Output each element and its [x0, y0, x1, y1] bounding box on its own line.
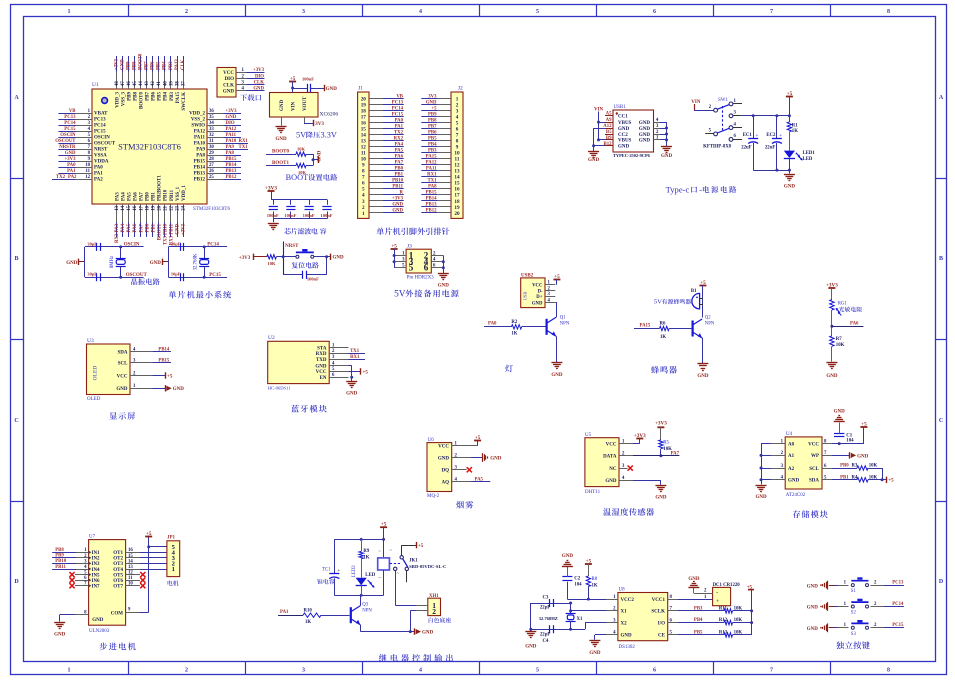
svg-text:10pF: 10pF — [171, 272, 181, 277]
svg-text:+3V3: +3V3 — [265, 185, 277, 191]
svg-text:+5: +5 — [861, 421, 867, 427]
svg-text:PC13: PC13 — [892, 581, 904, 586]
svg-text:EC1: EC1 — [743, 133, 753, 138]
svg-text:S3: S3 — [851, 632, 857, 637]
svg-text:GND: GND — [223, 90, 235, 95]
svg-text:HC-06DS11: HC-06DS11 — [268, 385, 292, 390]
svg-text:100nF: 100nF — [321, 213, 333, 218]
svg-text:44: 44 — [139, 81, 144, 86]
svg-text:1: 1 — [172, 566, 175, 573]
svg-text:RX2: RX2 — [394, 137, 404, 142]
svg-text:IN3: IN3 — [92, 562, 101, 567]
svg-text:OT3: OT3 — [113, 562, 123, 567]
svg-text:PB14: PB14 — [158, 347, 170, 352]
svg-text:PB7: PB7 — [145, 61, 150, 70]
svg-text:VBUS: VBUS — [618, 139, 632, 144]
svg-text:PA15: PA15 — [426, 155, 437, 160]
svg-text:U8: U8 — [619, 588, 626, 593]
svg-text:PB15: PB15 — [226, 157, 238, 162]
svg-text:GND: GND — [253, 87, 264, 92]
svg-text:U4: U4 — [786, 432, 793, 437]
svg-text:GND: GND — [661, 154, 673, 159]
svg-text:LED: LED — [803, 157, 813, 162]
svg-text:GND: GND — [426, 100, 437, 105]
svg-text:11: 11 — [361, 151, 366, 157]
svg-text:43: 43 — [145, 81, 150, 86]
svg-text:CLK: CLK — [181, 59, 186, 70]
svg-text:PB4: PB4 — [694, 618, 703, 623]
svg-text:GND: GND — [438, 456, 450, 461]
svg-text:NRSTR: NRSTR — [59, 145, 76, 150]
svg-text:I/O: I/O — [658, 621, 665, 626]
svg-text:PA6: PA6 — [395, 155, 404, 160]
svg-text:PB2BOOT1: PB2BOOT1 — [158, 175, 163, 201]
svg-text:24: 24 — [182, 205, 187, 210]
svg-text:VIN: VIN — [292, 101, 297, 111]
svg-text:J1: J1 — [358, 86, 363, 92]
svg-text:PA0: PA0 — [67, 163, 76, 168]
svg-text:PC14: PC14 — [892, 602, 904, 607]
svg-text:4: 4 — [362, 193, 365, 199]
svg-text:32.768K: 32.768K — [194, 253, 199, 270]
svg-text:U6: U6 — [428, 438, 435, 443]
svg-text:X1: X1 — [621, 610, 628, 615]
svg-text:+5: +5 — [586, 558, 592, 564]
svg-text:PB5: PB5 — [694, 631, 703, 636]
svg-text:NC: NC — [609, 467, 617, 472]
svg-text:USB: USB — [523, 292, 528, 301]
svg-text:3: 3 — [302, 668, 305, 674]
svg-text:CC1: CC1 — [618, 114, 628, 119]
svg-text:8MHz: 8MHz — [110, 256, 115, 268]
svg-text:B1: B1 — [691, 289, 697, 294]
svg-text:+5: +5 — [363, 370, 369, 375]
svg-text:D: D — [939, 579, 944, 585]
svg-text:B12: B12 — [604, 142, 613, 147]
svg-text:22: 22 — [170, 205, 175, 210]
svg-text:29: 29 — [209, 151, 214, 156]
svg-text:XH1: XH1 — [429, 594, 439, 599]
svg-text:LED2: LED2 — [352, 565, 357, 577]
svg-text:22uF: 22uF — [765, 146, 775, 151]
svg-text:OLED: OLED — [87, 397, 101, 402]
svg-text:XC6206: XC6206 — [320, 112, 339, 118]
svg-text:VB: VB — [69, 109, 76, 114]
svg-text:PA7: PA7 — [139, 223, 144, 232]
svg-text:VSS_1: VSS_1 — [176, 186, 181, 201]
svg-text:GND: GND — [315, 364, 327, 369]
svg-text:EN: EN — [320, 376, 327, 381]
svg-text:13: 13 — [115, 205, 120, 210]
svg-text:PA1: PA1 — [94, 172, 103, 177]
svg-text:8: 8 — [887, 9, 890, 15]
svg-text:R2: R2 — [511, 320, 517, 325]
svg-text:Q2: Q2 — [705, 316, 711, 321]
svg-text:ULN2003: ULN2003 — [89, 629, 110, 634]
svg-text:PC15: PC15 — [209, 273, 221, 278]
svg-text:PB12: PB12 — [194, 178, 206, 183]
svg-text:JP1: JP1 — [167, 535, 176, 540]
svg-text:PA11: PA11 — [226, 133, 237, 138]
svg-text:NRST: NRST — [94, 148, 108, 153]
svg-text:PB11: PB11 — [170, 189, 175, 201]
svg-text:+5: +5 — [290, 76, 296, 82]
svg-text:SDA: SDA — [117, 350, 127, 355]
svg-text:+5: +5 — [787, 91, 793, 97]
svg-text:Q3: Q3 — [362, 602, 368, 607]
svg-text:PB14: PB14 — [226, 163, 238, 168]
svg-text:B: B — [14, 256, 18, 262]
svg-text:GND: GND — [655, 496, 667, 501]
svg-text:PA0: PA0 — [395, 119, 404, 124]
svg-text:GND: GND — [621, 634, 633, 639]
svg-text:C2: C2 — [574, 577, 580, 582]
svg-text:17: 17 — [454, 193, 460, 199]
svg-text:AT24C02: AT24C02 — [786, 493, 806, 498]
svg-text:PB12: PB12 — [226, 175, 238, 180]
svg-text:+5: +5 — [431, 106, 437, 111]
svg-text:A0: A0 — [788, 442, 795, 447]
svg-text:3: 3 — [302, 9, 305, 15]
svg-text:PA12: PA12 — [426, 161, 437, 166]
svg-text:A2: A2 — [788, 467, 795, 472]
svg-text:31: 31 — [209, 139, 214, 144]
svg-text:4: 4 — [456, 115, 459, 121]
svg-text:PB6: PB6 — [151, 61, 156, 70]
svg-text:30pF: 30pF — [87, 241, 97, 246]
svg-text:U3: U3 — [87, 338, 94, 344]
svg-text:PA1: PA1 — [280, 610, 289, 615]
svg-text:GND: GND — [639, 133, 651, 138]
svg-text:R8: R8 — [592, 577, 598, 582]
svg-text:R10: R10 — [304, 608, 313, 613]
svg-text:R6: R6 — [660, 322, 666, 327]
svg-text:40: 40 — [163, 81, 168, 86]
svg-text:PB10: PB10 — [55, 559, 67, 564]
svg-text:15: 15 — [127, 205, 132, 210]
svg-text:+5: +5 — [888, 479, 894, 484]
svg-text:GND: GND — [226, 115, 237, 120]
svg-text:VCC: VCC — [223, 71, 234, 76]
svg-text:PB3: PB3 — [170, 92, 175, 101]
svg-text:PA9: PA9 — [196, 148, 205, 153]
svg-text:33: 33 — [209, 127, 214, 132]
svg-text:GND: GND — [618, 145, 630, 150]
svg-text:8: 8 — [887, 668, 890, 674]
svg-text:B9: B9 — [606, 136, 612, 141]
svg-text:6: 6 — [653, 668, 656, 674]
svg-text:PB1: PB1 — [840, 475, 849, 480]
svg-text:PA9: PA9 — [226, 145, 235, 150]
svg-text:PA8: PA8 — [196, 154, 205, 159]
svg-text:PB5: PB5 — [158, 92, 163, 101]
svg-text:OSCIN: OSCIN — [94, 136, 110, 141]
svg-text:PA2: PA2 — [94, 178, 103, 183]
svg-text:PA5: PA5 — [127, 192, 132, 201]
svg-text:20: 20 — [157, 205, 162, 210]
svg-text:41: 41 — [157, 81, 162, 86]
svg-text:1: 1 — [68, 9, 71, 15]
svg-text:S2: S2 — [851, 611, 857, 616]
svg-text:A: A — [939, 95, 944, 101]
svg-text:12: 12 — [85, 175, 90, 180]
svg-text:B: B — [939, 256, 943, 262]
svg-text:VDD_3: VDD_3 — [115, 92, 120, 108]
svg-text:GND: GND — [333, 256, 345, 261]
svg-text:GND: GND — [92, 618, 104, 623]
svg-text:PB4: PB4 — [164, 92, 169, 101]
svg-text:BOOT0: BOOT0 — [140, 92, 145, 109]
svg-text:+3V3: +3V3 — [826, 282, 838, 288]
svg-text:PB10: PB10 — [164, 189, 169, 201]
svg-text:RX1: RX1 — [427, 173, 437, 178]
svg-text:PB3: PB3 — [428, 149, 437, 154]
svg-text:GND: GND — [755, 495, 767, 500]
svg-text:SRD-05VDC-SL-C: SRD-05VDC-SL-C — [409, 564, 446, 569]
svg-text:+5: +5 — [418, 544, 424, 549]
svg-text:VCC: VCC — [117, 374, 128, 379]
svg-text:VBUS: VBUS — [618, 121, 632, 126]
svg-text:45: 45 — [133, 81, 138, 86]
svg-text:TX2: TX2 — [394, 131, 404, 136]
svg-text:30: 30 — [209, 145, 214, 150]
svg-text:3.3V: 3.3V — [321, 131, 337, 140]
svg-text:DQ: DQ — [442, 469, 450, 474]
svg-text:OLED: OLED — [93, 366, 99, 381]
svg-text:NPN: NPN — [560, 322, 570, 327]
svg-text:10K: 10K — [297, 147, 306, 152]
svg-text:47: 47 — [121, 81, 126, 86]
svg-text:VCC2: VCC2 — [621, 598, 635, 603]
svg-text:VDDA: VDDA — [94, 160, 109, 165]
svg-text:TXD: TXD — [316, 358, 327, 363]
svg-text:2: 2 — [185, 9, 188, 15]
svg-text:RXD: RXD — [316, 352, 327, 357]
svg-text:PB1: PB1 — [394, 173, 403, 178]
svg-text:IN7: IN7 — [92, 585, 101, 590]
svg-text:GND: GND — [788, 479, 800, 484]
svg-text:NPN: NPN — [362, 609, 372, 614]
svg-text:PC14: PC14 — [392, 106, 404, 111]
svg-text:19: 19 — [151, 205, 156, 210]
svg-text:PA12: PA12 — [226, 127, 237, 132]
svg-text:PB15: PB15 — [194, 160, 206, 165]
svg-text:SWCLK: SWCLK — [182, 92, 187, 111]
svg-text:NRST: NRST — [285, 244, 299, 249]
svg-text:GND: GND — [588, 158, 600, 163]
svg-text:D+: D+ — [536, 295, 542, 300]
svg-text:GND: GND — [54, 632, 66, 637]
svg-text:SCL: SCL — [118, 361, 128, 366]
svg-text:C3: C3 — [543, 595, 549, 600]
svg-text:TX1: TX1 — [427, 179, 437, 184]
svg-text:GND: GND — [834, 410, 846, 415]
svg-text:BOOT: BOOT — [286, 173, 309, 182]
svg-text:PA11: PA11 — [194, 136, 206, 141]
svg-text:22uF: 22uF — [741, 146, 751, 151]
svg-text:A1: A1 — [788, 454, 795, 459]
svg-text:PA8: PA8 — [226, 151, 235, 156]
svg-text:VSSA: VSSA — [94, 154, 107, 159]
svg-text:OSCOUT: OSCOUT — [94, 142, 116, 147]
svg-text:SW1: SW1 — [718, 98, 729, 103]
svg-text:DIO: DIO — [225, 77, 235, 82]
svg-text:GND: GND — [826, 374, 838, 379]
svg-text:+: + — [337, 568, 340, 574]
svg-text:PB1: PB1 — [151, 223, 156, 232]
svg-text:LED1: LED1 — [803, 151, 816, 156]
svg-text:~: ~ — [390, 549, 393, 554]
svg-text:10K: 10K — [268, 261, 277, 266]
svg-text:3V3: 3V3 — [315, 122, 324, 127]
svg-text:PB11: PB11 — [392, 185, 403, 190]
svg-text:26: 26 — [209, 169, 214, 174]
svg-text:PC14: PC14 — [94, 124, 106, 129]
svg-text:CC2: CC2 — [618, 133, 628, 138]
svg-text:PA11: PA11 — [426, 167, 437, 172]
svg-text:JK1: JK1 — [409, 559, 418, 564]
svg-text:RG1: RG1 — [838, 302, 848, 307]
svg-text:BOOT0: BOOT0 — [272, 150, 289, 155]
svg-text:PB10: PB10 — [392, 179, 404, 184]
svg-text:PB8: PB8 — [134, 92, 139, 101]
svg-text:PB1: PB1 — [152, 192, 157, 201]
svg-text:IN4: IN4 — [92, 568, 101, 573]
svg-text:OSCOUT: OSCOUT — [126, 273, 148, 278]
svg-text:21: 21 — [164, 205, 169, 210]
svg-text:SCLK: SCLK — [651, 610, 665, 615]
svg-text:STM32F103C8T6: STM32F103C8T6 — [118, 142, 181, 152]
svg-text:PC13: PC13 — [64, 115, 76, 120]
svg-text:Q1: Q1 — [560, 316, 566, 321]
svg-text:PB5: PB5 — [157, 61, 162, 70]
svg-text:GND: GND — [639, 121, 651, 126]
svg-text:VSS_2: VSS_2 — [191, 118, 206, 123]
svg-text:VDD_2: VDD_2 — [189, 112, 205, 117]
svg-text:PA10: PA10 — [226, 139, 237, 144]
svg-text:36: 36 — [209, 109, 214, 114]
svg-text:5V: 5V — [654, 299, 662, 306]
svg-text:1: 1 — [68, 668, 71, 674]
svg-text:GND: GND — [176, 223, 181, 234]
svg-text:R5: R5 — [663, 441, 669, 446]
svg-text:PC15: PC15 — [392, 112, 404, 117]
svg-text:PA5: PA5 — [475, 477, 484, 482]
svg-text:BOOT1: BOOT1 — [157, 223, 162, 240]
svg-text:PA1: PA1 — [67, 169, 76, 174]
svg-text:PB0: PB0 — [394, 167, 403, 172]
svg-text:-: - — [716, 590, 718, 597]
svg-text:PA0: PA0 — [488, 322, 497, 327]
svg-text:39: 39 — [169, 81, 174, 86]
svg-text:3V3: 3V3 — [428, 94, 437, 99]
svg-text:1K: 1K — [792, 129, 798, 134]
svg-text:42: 42 — [151, 81, 156, 86]
svg-text:PB8: PB8 — [133, 61, 138, 70]
svg-text:GND: GND — [807, 606, 819, 611]
svg-text:+: + — [755, 133, 758, 139]
svg-text:+3V3: +3V3 — [392, 197, 404, 202]
svg-text:USB2: USB2 — [521, 273, 534, 278]
svg-text:C4: C4 — [543, 639, 549, 644]
svg-text:PA6: PA6 — [134, 192, 139, 201]
svg-text:TYPEC-2502-9CP6: TYPEC-2502-9CP6 — [613, 153, 651, 158]
svg-text:10K: 10K — [869, 464, 878, 469]
svg-text:KFTDIP-8X8: KFTDIP-8X8 — [703, 145, 732, 150]
svg-text:CLK: CLK — [223, 83, 234, 88]
svg-text:GND: GND — [65, 151, 76, 156]
svg-text:100nF: 100nF — [284, 213, 296, 218]
svg-text:PB8: PB8 — [428, 119, 437, 124]
svg-text:SWIO: SWIO — [191, 124, 205, 129]
svg-text:1: 1 — [362, 211, 365, 217]
svg-text:PB9: PB9 — [55, 554, 64, 559]
svg-text:IN6: IN6 — [92, 579, 101, 584]
svg-text:+: + — [779, 133, 782, 139]
svg-text:22pF: 22pF — [540, 605, 550, 610]
svg-text:PB12: PB12 — [426, 209, 438, 214]
svg-text:GND: GND — [150, 261, 162, 266]
svg-text:PB13: PB13 — [194, 172, 206, 177]
svg-text:GND: GND — [438, 284, 450, 289]
svg-text:CLK: CLK — [254, 80, 265, 85]
svg-text:C: C — [14, 418, 18, 424]
svg-text:32.768HZ: 32.768HZ — [539, 616, 558, 621]
svg-text:32: 32 — [209, 133, 214, 138]
svg-text:TC1: TC1 — [322, 568, 331, 573]
svg-text:AQ: AQ — [442, 480, 450, 485]
svg-text:~: ~ — [378, 550, 381, 555]
svg-text:OT4: OT4 — [113, 568, 123, 573]
svg-text:+5: +5 — [146, 531, 152, 537]
svg-text:PB9: PB9 — [126, 61, 131, 70]
svg-text:GND: GND — [317, 150, 322, 162]
svg-text:GND: GND — [422, 631, 434, 636]
svg-text:R1: R1 — [792, 123, 798, 128]
svg-text:TX3 PB10: TX3 PB10 — [164, 223, 169, 245]
svg-text:5V: 5V — [296, 131, 306, 140]
svg-text:OSCOUT: OSCOUT — [55, 139, 76, 144]
svg-text:U7: U7 — [89, 534, 96, 539]
svg-text:BOOT0: BOOT0 — [139, 53, 144, 70]
svg-text:OT7: OT7 — [113, 585, 123, 590]
svg-text:5: 5 — [409, 263, 414, 273]
svg-text:GND: GND — [525, 645, 537, 650]
svg-text:U5: U5 — [585, 433, 592, 438]
svg-text:GND: GND — [605, 479, 617, 484]
svg-text:RX2 PA3: RX2 PA3 — [115, 223, 120, 243]
svg-text:GND: GND — [562, 554, 574, 559]
svg-text:PA0: PA0 — [94, 166, 103, 171]
svg-text:5: 5 — [536, 668, 539, 674]
svg-text:VCC: VCC — [532, 284, 543, 289]
svg-text:PA7: PA7 — [395, 161, 404, 166]
svg-text:PA12: PA12 — [194, 130, 206, 135]
svg-text:CE: CE — [658, 634, 666, 639]
svg-text:COM: COM — [111, 611, 124, 616]
svg-text:2: 2 — [185, 668, 188, 674]
svg-text:STM32F103C8T6: STM32F103C8T6 — [193, 207, 230, 212]
svg-text:PA6: PA6 — [133, 223, 138, 232]
svg-text:OT2: OT2 — [113, 557, 123, 562]
svg-text:R7: R7 — [836, 337, 842, 342]
svg-text:EC2: EC2 — [766, 133, 776, 138]
svg-text:STA: STA — [317, 346, 327, 351]
svg-text:PB13: PB13 — [226, 169, 238, 174]
svg-text:10: 10 — [454, 151, 460, 157]
svg-text:PB0: PB0 — [145, 223, 150, 232]
svg-text:1K: 1K — [305, 620, 311, 625]
